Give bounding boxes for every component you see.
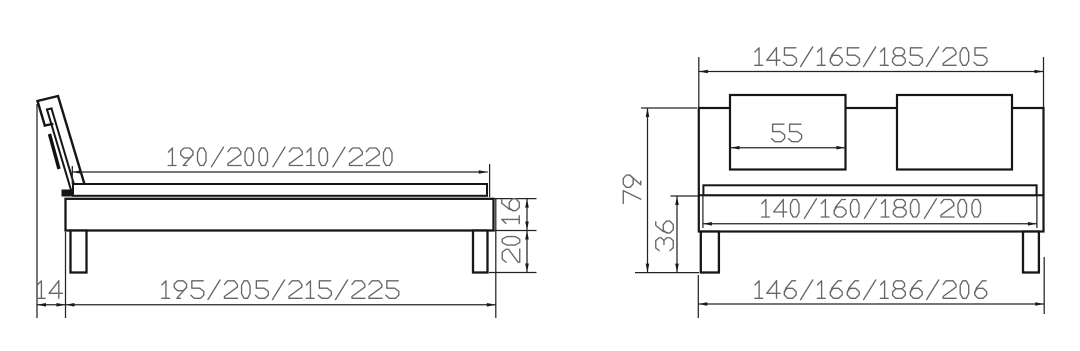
dim 16: top arrow <box>525 199 529 208</box>
dim 145/165/185/205: right arrow <box>1035 70 1044 74</box>
headboard panel (slanted board) <box>47 109 76 191</box>
dim 55: left arrow <box>731 146 740 150</box>
dim 145/165/185/205: left arrow <box>699 70 708 74</box>
dim 140/160/180/200: dimension line <box>703 223 1037 225</box>
dim 146/166/186/206: dimension line <box>698 303 1044 305</box>
dim 79: value label (rotated) <box>623 175 641 203</box>
right leg (side) <box>473 231 488 273</box>
dim 20: bottom extension line <box>489 272 537 274</box>
dim 16: top extension line <box>494 198 537 200</box>
dim 145/165/185/205: left extension line <box>698 57 700 107</box>
dim 20: top arrow <box>525 231 529 240</box>
dim 146/166/186/206: right arrow <box>1035 302 1044 306</box>
dim 195/205/215/225: value label <box>162 281 166 299</box>
dim 195/205/215/225: left arrow <box>66 303 75 307</box>
dim 36: value label (rotated) <box>656 221 674 251</box>
left leg (side) <box>71 231 87 273</box>
dim 195/205/215/225: dimension line <box>66 304 496 306</box>
dim 146/166/186/206: right extension line <box>1043 257 1045 314</box>
headboard rectangle <box>699 108 1044 232</box>
dim 140/160/180/200: right extension line <box>1036 195 1038 228</box>
front left leg <box>701 232 719 273</box>
dim 140/160/180/200: right arrow <box>1028 222 1037 226</box>
dim 140/160/180/200: value label <box>762 200 766 218</box>
dim 140/160/180/200: left arrow <box>703 222 712 226</box>
dim 145/165/185/205: right extension line <box>1043 57 1045 107</box>
dim 16/20: middle extension line <box>494 230 537 232</box>
dim 190/200/210/220: left arrow <box>72 170 81 174</box>
headrest pad outer contour <box>38 96 85 184</box>
bed frame rail (side) <box>66 199 494 231</box>
dim 55: value label <box>772 124 785 142</box>
dim 14: value label <box>37 281 41 299</box>
frame top line <box>699 194 1044 196</box>
dim 195/205/215/225: right arrow <box>487 303 496 307</box>
front right leg <box>1023 232 1039 273</box>
dim 14: right extension line (shared) <box>65 232 67 318</box>
dim 146/166/186/206: value label <box>755 281 759 299</box>
left cushion <box>730 95 846 170</box>
dim 20: bottom arrow <box>525 264 529 273</box>
dim 14: right arrow <box>57 303 66 307</box>
dim 190/200/210/220: right extension line <box>489 164 491 197</box>
mattress deck band (front) <box>703 185 1036 195</box>
dim 14: left extension line <box>36 104 38 318</box>
dim 36: top arrow <box>675 196 679 205</box>
dim 20: value label (rotated) <box>502 237 520 263</box>
dim 16: value label (rotated) <box>502 199 520 224</box>
dim 190/200/210/220: left extension line <box>71 166 73 184</box>
dim 79: vertical dimension line <box>647 108 649 273</box>
dim 36: top extension line <box>671 195 699 197</box>
dim 190/200/210/220: value label <box>168 148 172 166</box>
dim 14: left arrow <box>37 303 46 307</box>
black wedge strip on panel back <box>50 134 60 169</box>
dim 190/200/210/220: dimension line <box>72 171 488 173</box>
dim 36: vertical dimension line <box>676 196 678 273</box>
dim 195/205/215/225: right extension line <box>495 199 497 318</box>
mattress deck band (side) <box>73 184 487 196</box>
dim 16: bottom arrow <box>525 222 529 231</box>
dim 55: right arrow <box>836 146 845 150</box>
dim 79: bottom arrow <box>646 264 650 273</box>
dim 146/166/186/206: left arrow <box>698 302 707 306</box>
dim 145/165/185/205: dimension line <box>699 71 1044 73</box>
dim 79: top arrow <box>646 108 650 117</box>
dim 190/200/210/220: right arrow <box>479 170 488 174</box>
dim 146/166/186/206: left extension line <box>697 275 699 318</box>
dim 14: dimension line <box>37 304 66 306</box>
dim 79: top extension line <box>641 107 697 109</box>
dim 140/160/180/200: left extension line <box>702 195 704 228</box>
dark knot at panel foot <box>62 190 73 197</box>
dim 16/20: vertical dimension line <box>526 199 528 273</box>
dim 55: dimension line <box>731 147 846 149</box>
dim 145/165/185/205: value label <box>755 48 759 66</box>
dim 79/36: bottom extension line <box>635 272 699 274</box>
dim 36: bottom arrow <box>675 264 679 273</box>
right cushion <box>897 95 1012 170</box>
